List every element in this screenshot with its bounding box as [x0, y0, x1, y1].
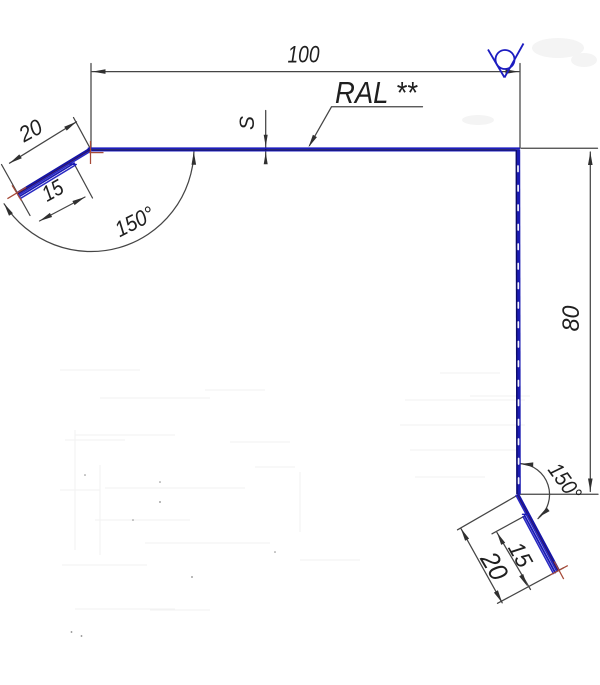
bottom-right flange hem fold [525, 516, 556, 573]
white dash marks on vertical sheet [517, 166, 520, 484]
top-left flange hem fold [19, 163, 74, 197]
extension line through flange end D [2, 165, 31, 216]
arrow 15tl left [40, 213, 53, 221]
arc 150deg top-left [4, 150, 194, 251]
bottom extension line of 80 dim [520, 493, 598, 495]
arrow 15tl right [72, 197, 85, 205]
thin black construction geometry [2, 64, 599, 604]
faint ghost smudges bottom-left [60, 370, 530, 610]
hem end tick bottom-right [523, 513, 530, 515]
S thickness dim line [265, 111, 267, 164]
extension line through flange end F [498, 568, 564, 604]
arrow arc-tl right [192, 152, 197, 165]
blue profile: top-left flange main sheet [17, 148, 91, 198]
dimension line 80 [589, 152, 591, 492]
arrow arc-br top [520, 462, 533, 467]
blue profile: top horizontal sheet [89, 148, 520, 151]
red datum cross at flange end F [550, 562, 568, 580]
arrow 20tl left [10, 154, 22, 163]
arrow S lower [264, 152, 268, 164]
dimension line 15 top-left [40, 197, 86, 221]
leader line RAL [310, 107, 423, 146]
dimension line 100 [92, 71, 519, 73]
arrow 15br bottom [519, 574, 527, 587]
arrow 80 bottom [588, 479, 593, 492]
arrow 20br bottom [494, 590, 502, 603]
arrow arc-br bottom [538, 508, 550, 518]
top extension line of 80 dim [521, 147, 598, 149]
faint watermark smudge top-right [462, 38, 597, 125]
arrow S upper [264, 135, 268, 147]
arrow 80 top [588, 152, 593, 165]
arrow RAL leader [309, 135, 317, 147]
arrow arc-tl left [4, 204, 13, 216]
svg-text:S: S [236, 116, 259, 130]
red datum cross at corner A [89, 141, 104, 164]
svg-text:100: 100 [288, 42, 321, 69]
arrow 100 left [93, 69, 106, 74]
blue profile: bottom-right flange main sheet [516, 494, 559, 573]
svg-text:80: 80 [558, 305, 585, 332]
arrowheads [4, 69, 593, 603]
extension line through hem end E2 [492, 516, 525, 534]
dimension line 20 top-left [10, 122, 77, 163]
arrow 20br top [461, 528, 469, 541]
arc 150deg bottom-right [520, 464, 549, 519]
arrow 100 right [506, 69, 519, 74]
extension line through corner A for 20 dim [74, 118, 91, 149]
arrow 15br top [497, 532, 505, 545]
extension line right of 100 dim [519, 64, 521, 148]
svg-text:RAL **: RAL ** [335, 75, 418, 110]
extension line left of 100 dim [90, 64, 92, 148]
extension line through hem end E [75, 165, 93, 199]
hem end tick top-left [70, 163, 77, 166]
arrow 20tl right [64, 122, 76, 131]
dimension line 15 bottom-right [497, 532, 531, 589]
dimension line 20 bottom-right [461, 528, 502, 603]
surface finish symbol (circle in V) [488, 44, 524, 78]
blue profile: right vertical sheet [516, 150, 518, 495]
red datum cross at flange end D [7, 185, 26, 200]
extension line through corner C [458, 495, 518, 530]
